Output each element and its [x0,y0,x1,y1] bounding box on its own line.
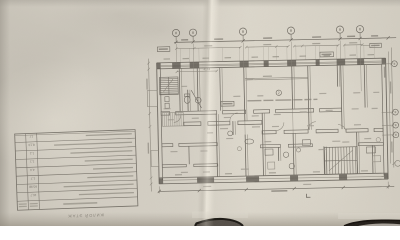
basin upper-left bathroom [195,97,201,103]
column axis circle 4 [287,27,294,40]
row axis circle 4 (right edge) [382,132,399,138]
label box TZh-1 (inside plan) [221,101,234,106]
column axis circle 2 [189,29,196,42]
interior wall band upper (y~111-115) [161,108,342,115]
secondary dimension segments [175,42,363,50]
boiler boxes on left wall [165,97,169,109]
interior corridor wall left (y~122-126) [184,121,262,126]
interior vertical partitions [179,64,375,177]
fixtures middle rooms [228,130,254,150]
staircase upper-left [159,77,178,95]
interior corridor wall right (y~132.5-136) [262,128,383,134]
left vertical dimension line [146,59,153,192]
exterior wall, right [382,58,389,179]
exterior wall, bottom (with window piers) [159,170,388,184]
interior wall left mid (y~143.5-146.5) [162,143,218,147]
plan caption line [247,99,317,102]
faint window-edge leader lines [180,44,374,62]
paper fold crease [197,0,221,231]
staircase lower-right [324,147,357,175]
interior wall left low (y~164.5-167) [162,164,218,168]
row axis circle 1 (right edge) [381,61,398,67]
paper wrinkles [0,0,160,85]
caption under table (upside-down) [67,213,104,219]
kitchen units right wing [366,138,381,162]
column axis circle 1 [172,29,179,42]
table description column (upside-down) [54,133,134,196]
interior wall right (y~146.5-149.5) [260,142,383,147]
column axis circle 5 [336,26,343,39]
exterior wall, left [157,63,163,184]
fixtures bathroom right [265,140,311,170]
right vertical dimension line [383,47,395,167]
exterior wall, top (with window piers) [157,54,386,69]
bottom dimension line [158,181,395,194]
row axis circle 5 partial [395,160,400,166]
row axis circle 3 (right edge) [382,122,399,128]
dark object bottom-right [344,220,400,226]
top dimension line [174,35,396,44]
door swing arcs [174,111,346,136]
diagonal partition in hall [191,90,201,108]
axis centre lines [176,40,362,140]
table header row (upside-down) [19,201,98,207]
room schedule table (upside down) [15,130,138,211]
porch outside left wall [147,90,159,166]
wc pan upper-left bathroom [184,94,190,104]
column axis circle 3 [239,28,246,41]
column axis circle 6 [356,25,363,38]
interior partition wall y~80 mid [245,75,308,80]
kitchen counter hatch upper-left block [162,112,183,126]
row axis circle 2 (right edge) [382,109,399,115]
table numbers column [27,134,37,197]
partition x186 lower [188,146,190,164]
small room annotations [163,76,381,188]
partition x219 upper [220,68,223,111]
label box LM-1 (left) [157,47,170,52]
circled room number 2 [276,90,282,96]
interior dimension line 4174 [176,67,218,73]
dark table-top below paper, centre blob [192,212,248,219]
label box top-right [362,43,381,48]
section mark L [306,194,310,198]
label box mid-top [320,52,334,57]
